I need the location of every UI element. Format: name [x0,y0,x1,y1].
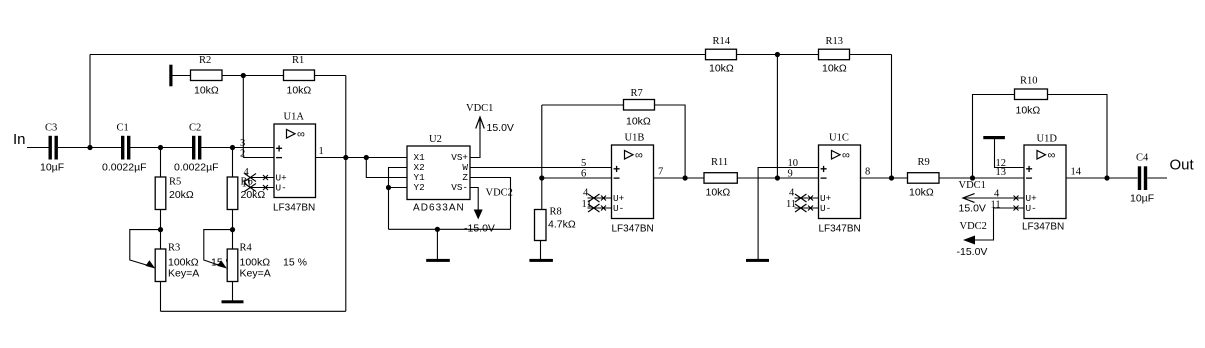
T ground at U1D pin 12 [983,136,1005,139]
svg-text:U-: U- [613,203,624,214]
svg-text:−: − [276,151,283,165]
svg-text:10kΩ: 10kΩ [194,85,219,97]
wire bottom rail up to U1A output node [345,158,347,312]
svg-text:C3: C3 [45,123,57,134]
svg-text:R14: R14 [713,36,731,47]
capacitor C3 [40,123,64,174]
wire R3 bottom down [160,282,162,312]
wire U2 ground rail [389,228,511,230]
wire rail node down to U1C pin 9 node [776,55,778,179]
U1B power pin U+ stub [588,194,612,202]
svg-text:U-: U- [1026,203,1037,214]
svg-text:2: 2 [240,149,245,160]
svg-text:R1: R1 [292,55,304,66]
VDC2 power arrow at U1D [957,221,988,258]
wire ground stub to R2 [173,75,191,77]
wire R3 wiper loop [130,230,161,266]
op-amp U1B [612,133,654,235]
svg-text:4: 4 [789,188,795,199]
wire U1D T ground stem [995,139,1025,168]
ground at U1C pin 10 [746,259,769,262]
U1C power pin U+ stub [795,194,819,202]
svg-text:4.7kΩ: 4.7kΩ [548,219,576,231]
op-amp U1D [1022,134,1066,233]
wire Y1 branch down [366,158,407,178]
svg-text:R11: R11 [711,157,728,168]
junction dot U1D output/R10 [1104,175,1109,180]
svg-text:AD633AN: AD633AN [413,203,465,214]
capacitor C2 [174,123,219,174]
svg-text:7: 7 [658,167,663,178]
svg-text:Key=A: Key=A [168,268,199,280]
junction dot R6/R4 [230,227,235,232]
U1B power pin U- stub [588,204,612,212]
svg-text:0.0022µF: 0.0022µF [174,162,219,174]
svg-text:−: − [1026,172,1033,186]
wire node D down to U1A pin 2 [242,76,244,158]
junction dot top rail R14/R13 [775,52,780,57]
svg-text:15.0V: 15.0V [959,203,986,215]
junction dot R9/R10/U1D pin 13 [970,175,975,180]
wire node B down to R5 [160,148,162,178]
svg-text:10kΩ: 10kΩ [287,85,312,97]
wire R4 node to R4 top [232,230,234,249]
VDC1 power arrow at U1D [959,180,986,215]
svg-text:10µF: 10µF [1130,193,1154,205]
U1C power pin U- stub [795,204,819,212]
svg-text:-15.0V: -15.0V [957,246,988,258]
potentiometer R4 [217,243,307,282]
junction dot Y1 branch [364,155,369,160]
wire R8 bottom to ground [540,241,542,260]
wire U1C output to R9 [861,177,908,179]
wire U1D output to C4 [1066,177,1138,179]
svg-text:10kΩ: 10kΩ [626,116,651,128]
svg-text:R9: R9 [918,157,930,168]
svg-text:15 %: 15 % [283,257,307,269]
ground under R4 [222,300,244,303]
wire R5 to R3 node [160,210,162,230]
wire R7 left vertical to R8 [541,105,543,210]
svg-text:∞: ∞ [1048,150,1056,162]
resistor R1 [284,55,315,97]
wire U1A pin 2 [243,157,274,159]
svg-text:VDC2: VDC2 [960,221,987,232]
svg-text:10µF: 10µF [40,162,64,174]
wire node A to C1 [90,147,121,149]
wire R1 corner down to U1A output node [345,76,347,158]
wire R9 to U1D pin 13 [939,177,1024,179]
svg-text:4: 4 [244,167,250,178]
junction dot U1A output feedback [343,155,348,160]
U1D power pin U- x mark [1014,206,1019,211]
svg-text:15.0V: 15.0V [487,122,514,134]
svg-text:−: − [820,172,827,186]
svg-text:C2: C2 [189,123,201,134]
wire VS+ to VDC1 arrow [470,117,480,158]
ground under R8 [529,259,553,262]
svg-text:11: 11 [786,199,796,210]
wire R14 to rail node [737,54,819,56]
svg-text:R13: R13 [826,36,844,47]
svg-text:Y2: Y2 [414,182,425,193]
wire Z to ground rail [470,178,511,230]
svg-text:10kΩ: 10kΩ [909,187,934,199]
svg-text:VDC2: VDC2 [486,188,513,199]
svg-text:11: 11 [991,200,1001,211]
svg-text:∞: ∞ [297,129,305,141]
wire R7 left horizontal [542,104,624,106]
svg-text:VDC1: VDC1 [959,180,986,191]
wire node C down to R6 [232,148,234,178]
junction dot U2 ground rail [435,227,440,232]
wire R11 to U1C pin 9 [737,177,818,179]
ground under U2 [426,259,450,262]
svg-text:U2: U2 [429,134,442,145]
resistor R9 [908,157,940,199]
resistor R6 [227,177,265,210]
svg-text:C4: C4 [1136,153,1149,164]
svg-text:R8: R8 [550,207,562,218]
wire C4 to Out [1148,177,1168,179]
svg-text:Out: Out [1170,157,1195,174]
svg-text:20kΩ: 20kΩ [241,189,266,201]
svg-text:U-: U- [276,183,287,194]
svg-text:∞: ∞ [842,150,850,162]
svg-text:5: 5 [581,158,586,169]
wire C2 to node C [201,147,233,149]
wire ground stem under U2 [436,229,438,259]
wire R10 left branch [973,95,1015,179]
svg-text:10kΩ: 10kΩ [706,187,731,199]
svg-text:−: − [613,172,620,186]
svg-text:C1: C1 [117,123,129,134]
op-amp U1C [819,133,861,235]
junction dot R5/R3 [158,227,163,232]
resistor R11 [704,157,737,199]
resistor R2 [191,55,223,97]
svg-text:U1B: U1B [625,133,645,144]
svg-text:10: 10 [788,158,799,169]
op-amp U1A [273,112,316,214]
wire node B to C2 [161,147,193,149]
node C junction dot [230,145,235,150]
svg-text:LF347BN: LF347BN [273,203,315,214]
svg-text:20kΩ: 20kΩ [169,189,194,201]
svg-text:U-: U- [820,203,831,214]
capacitor C4 [1130,153,1154,205]
svg-text:6: 6 [581,169,586,180]
resistor R5 [155,177,194,210]
capacitor C1 [102,123,147,174]
svg-text:14: 14 [1071,167,1082,178]
svg-text:11: 11 [582,199,592,210]
svg-text:8: 8 [865,167,870,178]
svg-text:4: 4 [583,188,589,199]
wire bottom feedback rail [161,310,346,312]
svg-text:LF347BN: LF347BN [819,224,861,235]
wire C3 to node A [58,147,90,149]
svg-text:U1A: U1A [284,112,305,123]
wire U1C pin 10 to ground [758,168,818,260]
wire node A up to top rail [89,55,91,148]
wire node C to U1A pin 3 [233,147,275,149]
svg-text:VDC1: VDC1 [466,103,493,114]
junction dot R11/U1C pin 9 [775,175,780,180]
svg-text:R5: R5 [169,177,181,188]
node D junction dot (R2/R1) [241,73,246,78]
junction dot U1C output [889,175,894,180]
svg-text:LF347BN: LF347BN [1022,222,1064,233]
resistor R7 [624,88,655,128]
VDC1 power arrow at U2 [466,103,514,134]
resistor R8 [535,207,576,241]
multiplier U2 AD633AN [407,134,470,214]
junction dot Y2 branch [386,185,391,190]
wire R7 right down to output node [655,105,686,178]
svg-text:3: 3 [240,138,245,149]
U1D power pin U+ x mark [1014,196,1019,201]
wire In to C3 [27,147,49,149]
svg-text:1: 1 [319,146,324,157]
svg-text:4: 4 [994,189,1000,200]
svg-text:0.0022µF: 0.0022µF [102,162,147,174]
svg-text:11: 11 [242,179,252,190]
svg-text:Key=A: Key=A [240,268,271,280]
junction dot R7 right/U1B output [683,175,688,180]
wire U1D pin 11 to VDC2 arrow [975,208,1024,240]
svg-text:10kΩ: 10kΩ [822,63,847,75]
svg-text:10kΩ: 10kΩ [1016,105,1041,117]
wire VS- to VDC2 arrow [470,188,478,211]
svg-text:13: 13 [996,167,1007,178]
junction dot U1B pin 6 node [539,175,544,180]
node A junction dot [87,145,92,150]
wire pin6 node to U1B pin 6 [542,177,612,179]
node B junction dot [158,145,163,150]
wire U1A output to U2 X1 [316,157,408,159]
svg-text:In: In [13,131,26,148]
resistor R14 [706,36,737,75]
svg-text:R10: R10 [1020,76,1038,87]
resistor R13 [819,36,850,75]
wire R13 right to corner [850,54,892,56]
wire R1 right to corner [315,75,346,77]
VDC2 power arrow at U2 [464,188,513,235]
svg-text:9: 9 [788,169,793,180]
svg-text:∞: ∞ [635,150,643,162]
wire C1 to node B [130,147,161,149]
svg-text:R2: R2 [199,55,211,66]
wire R6 to R4 node [232,210,234,230]
wire R4 bottom to ground [232,282,234,301]
svg-text:U1C: U1C [829,133,849,144]
wire Y2 branch [389,187,408,189]
wire R2 to node D [222,75,284,77]
svg-text:R7: R7 [631,88,643,99]
svg-text:10kΩ: 10kΩ [709,63,734,75]
wire X2 branch [389,168,408,230]
wire U1B output to R11 [654,177,705,179]
wire R4 wiper loop [204,230,233,266]
svg-text:U1D: U1D [1037,134,1058,145]
svg-text:VS-: VS- [451,182,468,193]
U1A power pin U- stub [245,184,275,192]
svg-text:R3: R3 [168,243,180,254]
wire U2 W to U1B pin 5 [470,167,612,169]
svg-text:LF347BN: LF347BN [612,224,654,235]
wire VDC1 arrow to U1D pin 4 [963,197,1024,199]
wire top rail to R14 [90,54,706,56]
potentiometer R3 [146,243,235,282]
wire corner down to U1C output node [891,55,893,179]
wire R10 right branch [1048,95,1108,179]
wire R3 node to R3 top [160,230,162,249]
resistor R10 [1015,76,1048,117]
svg-text:R4: R4 [240,243,253,254]
ground at R2 left [169,65,172,87]
U1A power pin U+ stub [245,174,275,182]
svg-text:-15.0V: -15.0V [464,223,495,235]
